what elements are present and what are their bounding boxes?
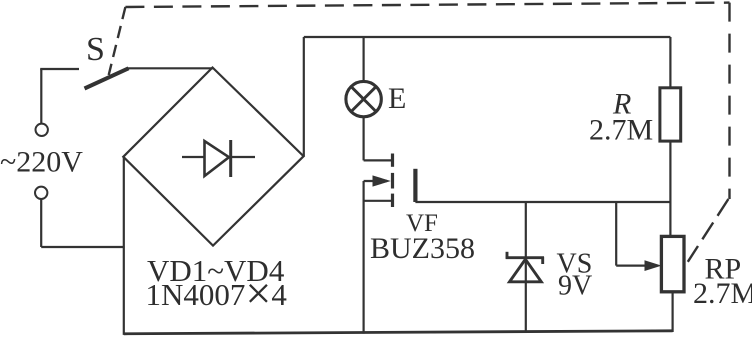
MOSFET source wire (364, 200, 392, 202)
terminal circle bottom (~220V input) (35, 187, 47, 199)
wire: bridge left corner down to bottom rail (123, 157, 125, 335)
dashed link: top horizontal (125, 3, 729, 7)
wire: AC top terminal lead (40, 69, 79, 124)
wire: AC bottom terminal lead (41, 199, 124, 247)
wire: R bottom to RP top (669, 141, 671, 236)
wire: gate line to the right (415, 201, 670, 203)
svg-text:~220V: ~220V (0, 146, 83, 179)
wire: RP bottom to bottom rail (671, 292, 673, 332)
wiper tap wire (616, 202, 646, 266)
wiper arrowhead (645, 260, 662, 271)
svg-text:9V: 9V (558, 271, 592, 302)
svg-text:BUZ358: BUZ358 (370, 232, 475, 265)
switch S blade (85, 68, 129, 88)
wire: lamp to MOSFET drain (364, 117, 392, 161)
MOSFET gate bar (413, 169, 417, 202)
wire: top rail (304, 36, 671, 38)
svg-text:2.7M: 2.7M (589, 114, 653, 147)
transistor VF (MOSFET) channel bars (391, 154, 394, 208)
wire: lamp branch upper (363, 37, 365, 82)
svg-text:S: S (86, 31, 105, 68)
dashed link: switch S diagonal (109, 7, 126, 75)
terminal circle top (~220V input) (36, 124, 48, 136)
dashed link: diagonal to RP (688, 199, 729, 262)
dashed link: right vertical (728, 3, 730, 199)
wire: bottom rail (124, 331, 673, 334)
zener diode VS (506, 252, 544, 282)
wire: top rail down to resistor R (669, 37, 671, 88)
svg-text:2.7M: 2.7M (693, 277, 752, 310)
wire: zener branch vertical (525, 202, 527, 333)
wire: source/body down to bottom rail (363, 181, 365, 334)
resistor R body (660, 88, 681, 141)
diode symbol inside bridge (182, 140, 255, 177)
lamp E circle with X (346, 81, 381, 116)
bridge rectifier VD1~VD4 diamond (123, 68, 303, 246)
svg-text:E: E (388, 82, 406, 115)
MOSFET body arrow (364, 175, 391, 186)
wire: bridge right corner up to top rail (303, 37, 305, 156)
potentiometer RP body (661, 236, 684, 291)
wire: switch to bridge top corner (127, 67, 213, 69)
